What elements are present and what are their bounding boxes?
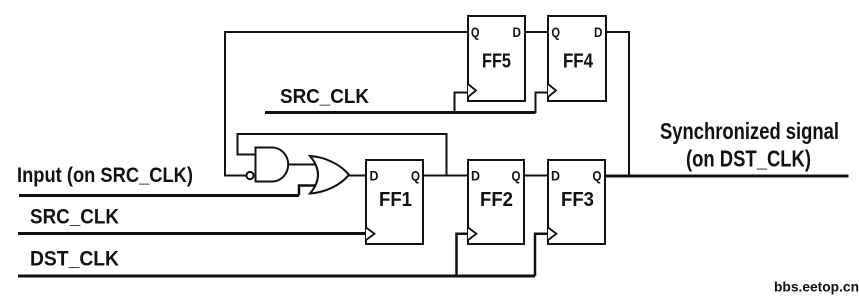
- svg-text:FF4: FF4: [563, 51, 594, 73]
- wire: FF1 Q to FF2 D: [423, 175, 468, 177]
- wire: synchronized output net: [605, 175, 849, 178]
- wire: SRC_CLK top rail: [265, 111, 536, 114]
- svg-text:D: D: [594, 24, 603, 40]
- wire: feedback rail from FF5 Q to NAND inverted input: [225, 32, 468, 176]
- wire: OR output to FF1 D: [349, 175, 366, 177]
- svg-text:(on DST_CLK): (on DST_CLK): [686, 146, 811, 172]
- wire: Input step up to OR lower input: [299, 186, 316, 196]
- flip-flop FF1: [366, 160, 423, 244]
- wire: riser to FF5 clock: [455, 93, 469, 113]
- flip-flop FF4: [548, 16, 606, 101]
- flip-flop FF3: [548, 160, 605, 244]
- svg-text:FF5: FF5: [482, 51, 511, 73]
- svg-text:Input (on SRC_CLK): Input (on SRC_CLK): [17, 164, 193, 187]
- wire: riser to FF4 clock: [536, 93, 549, 114]
- svg-text:Q: Q: [552, 24, 561, 40]
- svg-text:SRC_CLK: SRC_CLK: [30, 206, 119, 229]
- svg-text:FF2: FF2: [480, 189, 513, 211]
- AND gate with inverted input: [246, 148, 288, 182]
- wire: SRC_CLK left rail to FF1 clock: [18, 232, 366, 235]
- wire: FF5 D to FF4 Q: [525, 31, 548, 33]
- OR gate U2: [310, 156, 349, 194]
- svg-text:SRC_CLK: SRC_CLK: [280, 86, 370, 108]
- wire: riser to FF3 clock: [535, 234, 548, 276]
- inverter bubble: [246, 172, 253, 179]
- wire: Input rail: [19, 194, 299, 197]
- svg-text:Q: Q: [471, 24, 480, 40]
- svg-text:Q: Q: [593, 168, 602, 184]
- wire: riser to FF2 clock: [457, 234, 469, 276]
- flip-flop FF2: [468, 160, 524, 244]
- svg-text:D: D: [471, 168, 480, 184]
- wire: FF2 Q to FF3 D: [524, 175, 548, 177]
- wire: FF4 D down to output net: [606, 32, 629, 176]
- wire: NAND output to OR input: [288, 164, 318, 166]
- wire: FF1 Q feedback up to NAND top input: [238, 134, 447, 176]
- svg-text:Q: Q: [411, 168, 420, 184]
- svg-text:D: D: [513, 24, 522, 40]
- svg-text:FF3: FF3: [561, 189, 594, 211]
- wire: DST_CLK rail: [18, 275, 535, 278]
- svg-text:FF1: FF1: [379, 189, 412, 211]
- svg-text:D: D: [551, 168, 560, 184]
- svg-text:bbs.eetop.cn: bbs.eetop.cn: [774, 279, 859, 295]
- svg-text:Synchronized signal: Synchronized signal: [660, 118, 839, 144]
- svg-text:Q: Q: [512, 168, 521, 184]
- svg-text:DST_CLK: DST_CLK: [30, 248, 119, 271]
- svg-text:D: D: [370, 168, 379, 184]
- flip-flop FF5: [468, 16, 525, 101]
